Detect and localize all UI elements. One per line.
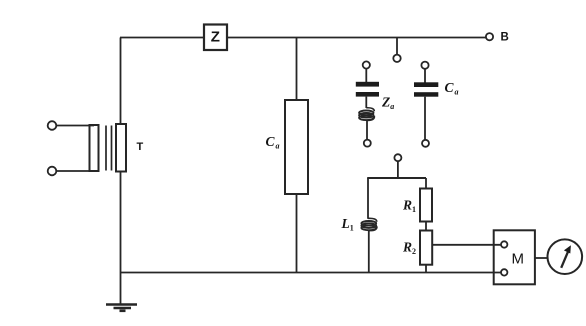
svg-text:T: T [137, 141, 144, 153]
svg-text:B: B [501, 31, 509, 43]
svg-text:M: M [512, 251, 525, 268]
svg-text:R1: R1 [402, 198, 416, 215]
svg-text:L1: L1 [341, 216, 354, 233]
svg-text:R2: R2 [402, 240, 416, 257]
svg-text:Za: Za [381, 95, 394, 112]
svg-text:Ca: Ca [266, 134, 280, 151]
svg-text:Ca: Ca [445, 80, 459, 97]
svg-text:Z: Z [211, 29, 220, 46]
